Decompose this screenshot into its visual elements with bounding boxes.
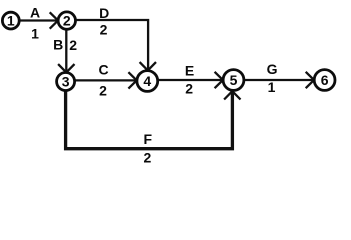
svg-text:E: E — [185, 63, 194, 79]
svg-text:C: C — [98, 62, 108, 78]
svg-text:5: 5 — [230, 72, 238, 88]
svg-text:2: 2 — [100, 22, 108, 38]
svg-text:1: 1 — [31, 25, 39, 41]
svg-text:1: 1 — [7, 13, 15, 29]
svg-text:A: A — [30, 5, 40, 21]
svg-text:B: B — [53, 37, 63, 53]
svg-text:2: 2 — [69, 37, 77, 53]
svg-text:3: 3 — [62, 74, 70, 90]
svg-text:6: 6 — [321, 72, 329, 88]
svg-text:2: 2 — [63, 13, 71, 29]
svg-text:2: 2 — [144, 150, 152, 166]
svg-text:2: 2 — [99, 82, 107, 98]
svg-text:1: 1 — [268, 79, 276, 95]
svg-text:D: D — [99, 5, 109, 21]
svg-text:F: F — [144, 131, 153, 147]
svg-text:G: G — [267, 61, 278, 77]
svg-text:2: 2 — [185, 80, 193, 96]
svg-text:4: 4 — [143, 73, 151, 89]
